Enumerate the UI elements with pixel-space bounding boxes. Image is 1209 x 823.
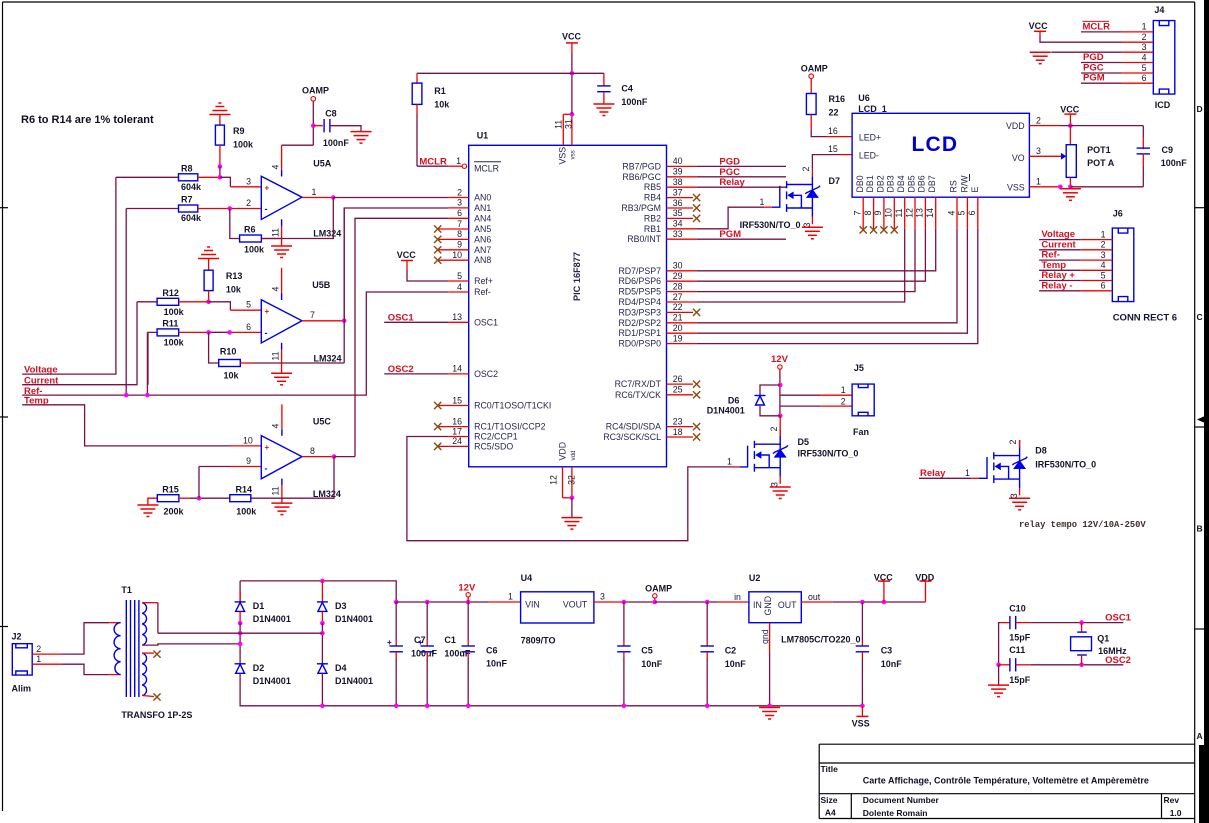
svg-text:Relay: Relay (920, 468, 946, 479)
svg-text:VDD: VDD (1006, 121, 1025, 131)
svg-text:3: 3 (1009, 493, 1019, 498)
svg-text:PGD: PGD (719, 156, 740, 167)
svg-text:AN4: AN4 (474, 213, 491, 223)
svg-text:12V: 12V (771, 354, 789, 365)
svg-text:RD0/PSP0: RD0/PSP0 (618, 339, 661, 349)
svg-text:3: 3 (802, 223, 812, 228)
svg-text:27: 27 (673, 292, 683, 302)
svg-text:U5B: U5B (312, 280, 331, 290)
svg-text:10: 10 (243, 435, 253, 445)
svg-text:VCC: VCC (874, 573, 894, 583)
svg-text:6: 6 (967, 210, 977, 215)
svg-text:J6: J6 (1113, 208, 1123, 218)
svg-text:RB2: RB2 (644, 213, 661, 223)
svg-text:9: 9 (873, 210, 883, 215)
svg-text:R6: R6 (244, 225, 256, 235)
svg-text:19: 19 (673, 333, 683, 343)
svg-text:RB6/PGC: RB6/PGC (622, 172, 661, 182)
svg-text:DB5: DB5 (906, 175, 916, 192)
svg-text:1: 1 (1142, 22, 1147, 32)
svg-text:10k: 10k (224, 370, 240, 380)
svg-text:10: 10 (884, 208, 894, 218)
svg-text:VCC: VCC (1029, 21, 1049, 31)
svg-text:2: 2 (801, 167, 811, 172)
svg-text:2: 2 (1101, 240, 1106, 250)
svg-text:C11: C11 (1009, 645, 1025, 655)
svg-text:DB3: DB3 (886, 175, 896, 192)
svg-text:RD1/PSP1: RD1/PSP1 (618, 328, 661, 338)
svg-text:2: 2 (457, 187, 462, 197)
svg-text:R1: R1 (434, 86, 446, 96)
svg-text:OSC2: OSC2 (474, 369, 498, 379)
svg-text:AN0: AN0 (474, 193, 491, 203)
svg-text:AN8: AN8 (474, 255, 491, 265)
svg-text:AN5: AN5 (474, 224, 491, 234)
svg-text:DB4: DB4 (896, 175, 906, 192)
svg-text:21: 21 (673, 313, 683, 323)
svg-text:PIC 16F877: PIC 16F877 (572, 252, 582, 301)
svg-text:RD5/PSP5: RD5/PSP5 (618, 287, 661, 297)
svg-text:D6: D6 (728, 396, 740, 406)
svg-text:C3: C3 (881, 646, 893, 656)
svg-text:PGC: PGC (719, 167, 740, 178)
svg-text:40: 40 (673, 156, 683, 166)
svg-text:15: 15 (452, 395, 462, 405)
svg-text:U2: U2 (749, 573, 761, 583)
svg-text:10nF: 10nF (486, 659, 508, 669)
svg-text:23: 23 (673, 416, 683, 426)
svg-text:-: - (265, 204, 268, 214)
svg-text:Fan: Fan (853, 427, 869, 437)
svg-text:5: 5 (457, 271, 462, 281)
svg-text:11: 11 (554, 120, 564, 129)
svg-text:RD7/PSP7: RD7/PSP7 (618, 266, 661, 276)
svg-text:1: 1 (456, 156, 461, 166)
svg-text:1.0: 1.0 (1170, 808, 1182, 818)
svg-text:C10: C10 (1009, 603, 1026, 613)
svg-text:A: A (1197, 731, 1203, 741)
svg-text:U1: U1 (477, 131, 489, 141)
svg-text:2: 2 (1008, 439, 1018, 444)
svg-text:100nF: 100nF (621, 97, 648, 107)
svg-text:PGD: PGD (1083, 52, 1104, 63)
svg-text:OAMP: OAMP (645, 583, 672, 593)
svg-text:POT A: POT A (1087, 158, 1115, 168)
svg-text:4: 4 (270, 286, 280, 291)
svg-text:OSC1: OSC1 (1105, 612, 1132, 623)
svg-text:1: 1 (841, 385, 846, 395)
svg-text:VSS: VSS (852, 719, 870, 729)
svg-text:C8: C8 (325, 108, 337, 118)
svg-text:RD6/PSP6: RD6/PSP6 (618, 276, 661, 286)
svg-text:RD4/PSP4: RD4/PSP4 (618, 297, 661, 307)
svg-text:MCLR: MCLR (419, 157, 447, 168)
svg-text:RB5: RB5 (644, 182, 661, 192)
svg-text:VOUT: VOUT (563, 599, 588, 609)
svg-text:11: 11 (894, 208, 904, 217)
svg-text:+: + (418, 638, 423, 647)
svg-text:8: 8 (863, 210, 873, 215)
svg-text:Alim: Alim (12, 684, 32, 694)
svg-text:LM324: LM324 (313, 228, 341, 238)
svg-text:Relay -: Relay - (1041, 281, 1072, 292)
svg-text:4: 4 (946, 210, 956, 215)
svg-text:IRF530N/TO_0: IRF530N/TO_0 (798, 448, 859, 458)
svg-text:2: 2 (1142, 32, 1147, 42)
svg-text:16: 16 (828, 126, 838, 136)
svg-text:RC2/CCP1: RC2/CCP1 (474, 432, 518, 442)
svg-text:DB6: DB6 (917, 175, 927, 192)
svg-text:OSC1: OSC1 (474, 317, 498, 327)
svg-text:+: + (265, 307, 270, 316)
svg-text:OSC2: OSC2 (1105, 655, 1131, 666)
svg-text:15: 15 (828, 144, 838, 154)
svg-text:+: + (387, 638, 392, 647)
svg-text:C2: C2 (725, 646, 737, 656)
svg-text:6: 6 (1101, 281, 1106, 291)
svg-text:D3: D3 (335, 601, 347, 611)
svg-text:MCLR: MCLR (1083, 21, 1111, 32)
svg-text:RB1: RB1 (644, 224, 661, 234)
svg-text:C9: C9 (1162, 145, 1174, 155)
svg-text:1: 1 (965, 468, 970, 478)
svg-text:13: 13 (915, 208, 925, 218)
svg-text:DB1: DB1 (865, 175, 875, 192)
svg-text:R7: R7 (181, 195, 193, 205)
svg-text:ICD: ICD (1155, 100, 1171, 110)
svg-text:LCD: LCD (912, 133, 959, 156)
svg-text:R15: R15 (162, 485, 179, 495)
svg-text:3: 3 (1142, 42, 1147, 52)
svg-text:12: 12 (904, 208, 914, 218)
svg-text:18: 18 (673, 427, 683, 437)
svg-text:RB4: RB4 (644, 193, 661, 203)
svg-text:RB7/PGD: RB7/PGD (622, 161, 661, 171)
svg-text:3: 3 (770, 482, 780, 487)
svg-text:C4: C4 (621, 84, 633, 94)
svg-text:20: 20 (673, 323, 683, 333)
svg-text:J2: J2 (12, 632, 22, 642)
svg-text:R9: R9 (233, 126, 245, 136)
svg-text:AN1: AN1 (474, 203, 491, 213)
svg-text:1: 1 (36, 654, 41, 664)
svg-text:11: 11 (271, 486, 281, 495)
svg-text:VCC: VCC (562, 32, 582, 42)
svg-text:8: 8 (310, 446, 315, 456)
svg-text:6: 6 (457, 208, 462, 218)
svg-text:4: 4 (457, 282, 462, 292)
svg-text:J5: J5 (854, 363, 864, 373)
svg-text:1: 1 (508, 592, 513, 602)
svg-text:100nF: 100nF (1161, 158, 1188, 168)
svg-text:100k: 100k (164, 307, 185, 317)
svg-text:D1N4001: D1N4001 (335, 614, 373, 624)
svg-text:604k: 604k (181, 213, 202, 223)
svg-text:3: 3 (600, 592, 605, 602)
svg-text:37: 37 (673, 187, 683, 197)
svg-text:1: 1 (1101, 229, 1106, 239)
svg-text:C5: C5 (641, 646, 653, 656)
svg-text:RC5/SDO: RC5/SDO (474, 441, 513, 451)
svg-text:4: 4 (1142, 52, 1147, 62)
svg-text:RD2/PSP2: RD2/PSP2 (618, 318, 661, 328)
svg-text:Rev: Rev (1164, 795, 1180, 805)
svg-text:Ref-: Ref- (474, 287, 491, 297)
svg-text:7: 7 (853, 210, 863, 215)
svg-text:VDD: VDD (558, 442, 568, 461)
svg-text:PGM: PGM (719, 229, 741, 240)
svg-text:R13: R13 (226, 271, 243, 281)
svg-text:4: 4 (270, 164, 280, 169)
svg-text:DB2: DB2 (875, 175, 885, 192)
svg-text:R8: R8 (181, 163, 193, 173)
svg-text:D1N4001: D1N4001 (253, 676, 291, 686)
svg-text:U6: U6 (858, 93, 870, 103)
svg-text:C6: C6 (486, 645, 498, 655)
svg-text:MCLR: MCLR (474, 163, 499, 173)
svg-text:22: 22 (829, 107, 839, 117)
svg-text:R11: R11 (162, 318, 178, 328)
svg-text:out: out (808, 592, 821, 602)
svg-text:Document Number: Document Number (863, 795, 940, 805)
svg-text:RC3/SCK/SCL: RC3/SCK/SCL (603, 432, 661, 442)
svg-text:D1N4001: D1N4001 (707, 405, 745, 415)
svg-text:13: 13 (452, 312, 462, 322)
svg-text:Ref+: Ref+ (474, 276, 493, 286)
svg-text:gnd: gnd (760, 629, 770, 644)
svg-text:4: 4 (271, 423, 281, 428)
svg-text:100nF: 100nF (323, 138, 350, 148)
svg-text:6: 6 (1142, 73, 1147, 83)
svg-text:Title: Title (821, 764, 839, 774)
svg-text:D5: D5 (798, 437, 810, 447)
svg-text:17: 17 (452, 426, 462, 436)
svg-text:C: C (1197, 312, 1203, 322)
svg-text:12: 12 (549, 475, 559, 485)
svg-text:GND: GND (763, 596, 773, 616)
svg-text:RB0/INT: RB0/INT (627, 234, 661, 244)
svg-text:33: 33 (673, 229, 683, 239)
svg-text:VCC: VCC (397, 250, 417, 260)
svg-text:9: 9 (457, 240, 462, 250)
svg-text:100k: 100k (164, 337, 185, 347)
svg-text:1: 1 (727, 457, 732, 467)
svg-text:34: 34 (673, 219, 683, 229)
svg-text:+: + (265, 443, 270, 452)
svg-text:VDD: VDD (915, 573, 935, 583)
svg-text:4: 4 (1101, 260, 1106, 270)
svg-text:vdd: vdd (570, 450, 577, 461)
svg-text:11: 11 (270, 228, 280, 237)
svg-text:D1: D1 (253, 601, 265, 611)
svg-text:IN: IN (753, 600, 762, 610)
svg-text:R10: R10 (220, 347, 237, 357)
svg-text:10: 10 (452, 250, 462, 260)
svg-text:7: 7 (310, 310, 315, 320)
svg-text:B: B (1197, 524, 1203, 534)
svg-text:D8: D8 (1035, 446, 1047, 456)
svg-text:RC0/T1OSO/T1CKI: RC0/T1OSO/T1CKI (474, 401, 551, 411)
svg-text:J4: J4 (1154, 5, 1164, 15)
svg-text:D1N4001: D1N4001 (335, 676, 373, 686)
svg-text:15pF: 15pF (1009, 632, 1031, 642)
svg-text:36: 36 (673, 198, 683, 208)
svg-text:8: 8 (457, 229, 462, 239)
svg-text:Relay: Relay (719, 177, 745, 188)
svg-text:AN7: AN7 (474, 245, 491, 255)
svg-text:U4: U4 (521, 573, 533, 583)
svg-text:1: 1 (312, 187, 317, 197)
svg-text:16MHz: 16MHz (1098, 646, 1127, 656)
svg-text:3: 3 (1101, 250, 1106, 260)
svg-text:RB3/PGM: RB3/PGM (621, 203, 661, 213)
svg-text:T1: T1 (121, 585, 132, 595)
svg-text:RC7/RX/DT: RC7/RX/DT (615, 379, 662, 389)
svg-text:31: 31 (563, 119, 573, 129)
svg-text:10k: 10k (226, 285, 242, 295)
svg-text:5: 5 (1101, 270, 1106, 280)
svg-text:6: 6 (246, 322, 251, 332)
svg-text:3: 3 (457, 198, 462, 208)
svg-text:relay tempo 12V/10A-250V: relay tempo 12V/10A-250V (1019, 520, 1146, 530)
svg-text:IRF530N/TO_0: IRF530N/TO_0 (740, 220, 801, 230)
svg-text:28: 28 (673, 281, 683, 291)
svg-text:32: 32 (567, 475, 577, 485)
svg-text:AN6: AN6 (474, 234, 491, 244)
svg-text:C1: C1 (444, 635, 456, 645)
svg-text:Carte Affichage, Contrôle Temp: Carte Affichage, Contrôle Température, V… (863, 776, 1149, 786)
svg-text:RS: RS (949, 180, 959, 192)
svg-text:7: 7 (457, 219, 462, 229)
svg-text:26: 26 (673, 374, 683, 384)
svg-text:24: 24 (452, 436, 462, 446)
svg-text:TRANSFO 1P-2S: TRANSFO 1P-2S (121, 710, 192, 720)
svg-text:22: 22 (673, 302, 683, 312)
svg-text:11: 11 (270, 351, 280, 360)
svg-text:604k: 604k (181, 182, 202, 192)
svg-text:100k: 100k (233, 140, 254, 150)
svg-text:100uF: 100uF (411, 648, 438, 658)
svg-text:1: 1 (760, 197, 765, 207)
svg-text:PGM: PGM (1083, 73, 1105, 84)
svg-text:Dolente Romain: Dolente Romain (863, 808, 928, 818)
svg-text:OAMP: OAMP (801, 64, 828, 74)
svg-text:200k: 200k (164, 507, 185, 517)
svg-text:35: 35 (673, 208, 683, 218)
svg-text:5: 5 (957, 210, 967, 215)
svg-text:14: 14 (925, 208, 935, 218)
svg-text:15pF: 15pF (1009, 675, 1031, 685)
svg-text:DB7: DB7 (927, 175, 937, 192)
svg-text:Size: Size (821, 795, 838, 805)
svg-text:29: 29 (673, 271, 683, 281)
svg-text:D: D (1197, 104, 1203, 114)
svg-text:2: 2 (841, 396, 846, 406)
svg-text:D2: D2 (253, 663, 265, 673)
svg-text:LED-: LED- (859, 150, 879, 160)
svg-text:VCC: VCC (1060, 105, 1080, 115)
svg-text:-: - (265, 328, 268, 338)
svg-text:-: - (265, 464, 268, 474)
svg-text:D1N4001: D1N4001 (253, 614, 291, 624)
svg-text:R/W: R/W (959, 175, 969, 193)
svg-text:R12: R12 (162, 288, 179, 298)
svg-text:U5C: U5C (313, 416, 332, 426)
svg-text:Q1: Q1 (1097, 634, 1109, 644)
svg-text:Voltage: Voltage (1041, 229, 1075, 240)
svg-text:+: + (265, 184, 270, 193)
svg-text:RC1/T1OSI/CCP2: RC1/T1OSI/CCP2 (474, 422, 545, 432)
svg-text:2: 2 (769, 426, 779, 431)
svg-text:100uF: 100uF (444, 648, 471, 658)
svg-text:IRF530N/TO_0: IRF530N/TO_0 (1035, 459, 1096, 469)
svg-text:in: in (734, 592, 741, 602)
svg-text:RC6/TX/CK: RC6/TX/CK (615, 390, 661, 400)
svg-text:POT1: POT1 (1087, 145, 1111, 155)
svg-text:3: 3 (1036, 146, 1041, 156)
svg-text:7809/TO: 7809/TO (521, 635, 556, 645)
svg-text:10nF: 10nF (641, 659, 663, 669)
svg-text:2: 2 (1036, 115, 1041, 125)
svg-text:A4: A4 (825, 808, 836, 818)
svg-text:RD3/PSP3: RD3/PSP3 (618, 307, 661, 317)
svg-text:R16: R16 (829, 94, 846, 104)
svg-text:100k: 100k (236, 507, 257, 517)
svg-text:10nF: 10nF (725, 659, 747, 669)
svg-text:12V: 12V (458, 583, 476, 594)
svg-text:9: 9 (246, 456, 251, 466)
svg-text:100k: 100k (244, 245, 265, 255)
svg-text:vss: vss (570, 150, 577, 159)
svg-text:2: 2 (246, 198, 251, 208)
svg-text:U5A: U5A (313, 159, 332, 169)
svg-text:VSS: VSS (558, 147, 568, 165)
svg-text:16: 16 (452, 416, 462, 426)
svg-text:10k: 10k (434, 100, 450, 110)
svg-text:LED+: LED+ (859, 132, 881, 142)
svg-text:OAMP: OAMP (302, 86, 329, 96)
svg-text:VO: VO (1012, 153, 1025, 163)
svg-text:RC4/SDI/SDA: RC4/SDI/SDA (606, 422, 661, 432)
svg-text:38: 38 (673, 177, 683, 187)
svg-text:39: 39 (673, 167, 683, 177)
svg-text:VSS: VSS (1007, 182, 1025, 192)
svg-text:LM324: LM324 (314, 353, 342, 363)
svg-text:DB0: DB0 (855, 175, 865, 192)
svg-text:D7: D7 (829, 176, 841, 186)
svg-text:CONN RECT 6: CONN RECT 6 (1113, 312, 1177, 323)
svg-text:10nF: 10nF (881, 659, 903, 669)
svg-text:OUT: OUT (778, 600, 797, 610)
svg-text:14: 14 (452, 364, 462, 374)
svg-text:LM7805C/TO220_0: LM7805C/TO220_0 (781, 634, 860, 644)
svg-text:5: 5 (1142, 63, 1147, 73)
svg-text:3: 3 (246, 176, 251, 186)
svg-text:D4: D4 (335, 663, 347, 673)
svg-text:E: E (970, 187, 980, 193)
svg-text:R6 to R14 are 1% tolerant: R6 to R14 are 1% tolerant (21, 114, 154, 126)
svg-text:2: 2 (36, 644, 41, 654)
svg-text:30: 30 (673, 261, 683, 271)
svg-text:1: 1 (1036, 177, 1041, 187)
svg-text:LCD_1: LCD_1 (858, 104, 887, 114)
svg-text:VIN: VIN (525, 599, 540, 609)
svg-text:25: 25 (673, 385, 683, 395)
svg-text:R14: R14 (236, 485, 253, 495)
svg-text:5: 5 (246, 300, 251, 310)
